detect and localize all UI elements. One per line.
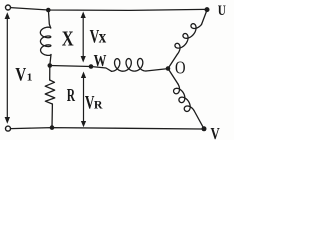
- svg-text:1: 1: [27, 72, 33, 83]
- arrowhead Vx up: [81, 12, 86, 19]
- arrowhead V1 down: [5, 117, 10, 124]
- svg-text:R: R: [67, 87, 76, 106]
- resistor R: [45, 80, 55, 104]
- inductor winding O-V: [174, 84, 194, 111]
- svg-text:U: U: [218, 1, 226, 18]
- arrowhead Vx down: [81, 56, 86, 63]
- svg-text:X: X: [62, 28, 74, 52]
- arrowhead VR up: [81, 72, 86, 79]
- arrow Vx shaft: [82, 16, 84, 58]
- wire: top rail down to inductor X: [48, 10, 50, 28]
- node O dot: [166, 66, 171, 71]
- inductor winding W-O: [112, 58, 147, 71]
- wire: junction down to resistor R: [49, 66, 51, 81]
- wire: winding to node O: [146, 69, 168, 71]
- arrowhead V1 up: [5, 12, 10, 19]
- svg-text:W: W: [94, 52, 107, 70]
- wire: winding O-V to terminal V: [194, 111, 204, 129]
- wire: node O up to winding O-U: [168, 54, 178, 69]
- svg-text:O: O: [175, 60, 186, 78]
- inductor winding O-U: [175, 24, 202, 54]
- arrowhead VR down: [81, 121, 86, 127]
- junction dot: X / R / W wire: [48, 63, 53, 68]
- node W dot: [89, 64, 94, 69]
- junction dot: R / bottom rail: [50, 125, 55, 130]
- wire: inductor X to X/R junction: [50, 55, 51, 66]
- arrow V1 shaft: [6, 17, 8, 119]
- svg-text:x: x: [99, 27, 107, 46]
- wire: winding O-U to terminal U: [202, 10, 208, 25]
- wire: node W to winding coil: [91, 67, 112, 72]
- wire: node O down to winding O-V: [168, 69, 178, 85]
- node V dot: [202, 126, 207, 131]
- node U dot: [205, 7, 210, 12]
- arrow VR shaft: [83, 76, 85, 123]
- wire: top rail from left terminal to U: [11, 8, 205, 11]
- terminal circle top-left: [6, 5, 11, 10]
- wire: resistor R to bottom rail: [51, 104, 53, 128]
- inductor X: [40, 27, 51, 55]
- junction dot: top rail / X: [46, 8, 51, 13]
- wire: bottom rail from left terminal to V: [11, 128, 202, 129]
- terminal circle bottom-left: [6, 126, 11, 131]
- svg-text:V: V: [211, 126, 221, 140]
- wire: X/R junction to node W: [50, 66, 91, 67]
- svg-text:V: V: [15, 64, 26, 85]
- svg-text:R: R: [94, 98, 103, 112]
